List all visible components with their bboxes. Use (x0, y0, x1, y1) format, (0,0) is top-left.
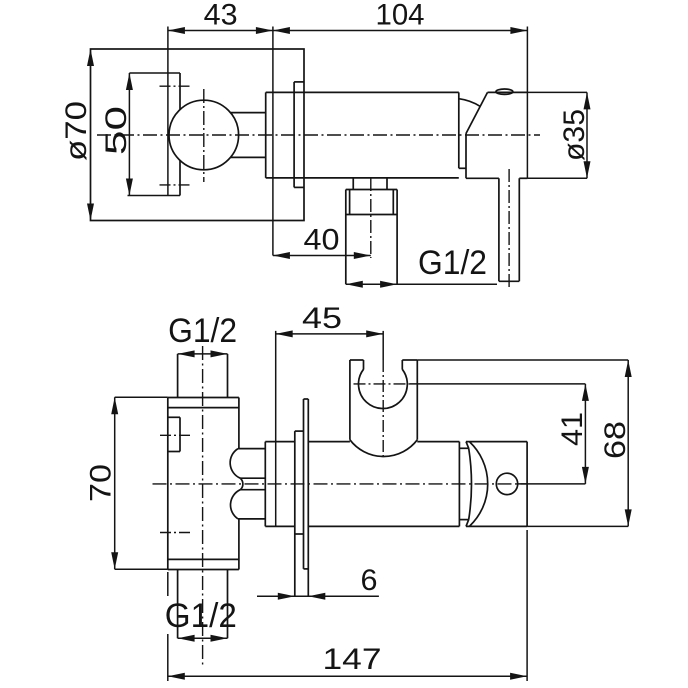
down pipe (top view) (499, 178, 519, 281)
svg-text:41: 41 (556, 412, 589, 446)
dimension text 147 (323, 643, 382, 676)
dimension text 6 (361, 564, 378, 597)
handle lever right edge (179, 73, 181, 196)
shower holder left edge (349, 360, 351, 440)
label G1/2 (top pipe) (168, 312, 237, 350)
68 bottom extension line (527, 525, 628, 527)
head inner arc (469, 448, 472, 519)
shower holder ear tops (350, 359, 417, 361)
41 top extension line (410, 383, 585, 385)
cylinder bottom edge segments (265, 525, 459, 527)
head bottom edge (466, 177, 527, 179)
outlet centerline (370, 178, 372, 258)
vertical centerline (bottom view) (202, 346, 204, 665)
svg-text:50: 50 (100, 106, 133, 155)
dimension 41 (582, 384, 589, 484)
mounting hub behind plate (295, 431, 304, 596)
svg-text:G1/2: G1/2 (168, 312, 237, 350)
dimension 40 line (273, 252, 371, 259)
G1/2 dimension (top pipe) (178, 350, 228, 357)
label G1/2 (top view) (418, 244, 487, 282)
body top cap (168, 398, 239, 408)
147 right extension (526, 530, 528, 681)
svg-text:ø35: ø35 (558, 109, 591, 161)
body bottom cap (168, 559, 239, 569)
cylinder second joint / 45 extension (275, 331, 277, 527)
head outline (bottom view) (466, 442, 527, 527)
68 top extension line (417, 359, 628, 361)
outlet pipe bottom (178, 570, 228, 639)
svg-text:ø70: ø70 (60, 101, 93, 161)
svg-text:68: 68 (599, 421, 632, 459)
head dome bump (496, 89, 513, 94)
handle lever left edge / 43 extension line (167, 27, 169, 196)
outlet nut (346, 190, 397, 285)
vertical body right edge (238, 398, 240, 570)
holder horizontal centerline (354, 383, 411, 385)
svg-text:6: 6 (361, 564, 378, 597)
dimension text 40 (304, 224, 340, 257)
ball vertical centerline (203, 89, 205, 182)
cover plate (bottom view) (304, 399, 309, 596)
lower hole centerline (160, 532, 193, 534)
dimension text 45 (302, 302, 342, 335)
head right edge / 104 extension (526, 27, 528, 179)
dimension o35 line (527, 92, 590, 178)
dimension 68 (625, 360, 632, 526)
body cylinder bottom edge (266, 177, 459, 179)
dimension line o70 with arrows (87, 49, 94, 221)
cylinder left joint (264, 442, 266, 527)
lug bottom edge / 50 bottom extension (128, 195, 181, 197)
dimension 70 line (111, 397, 168, 569)
down pipe centerline (508, 169, 510, 290)
svg-text:43: 43 (204, 0, 238, 32)
outlet neck stubs (353, 178, 387, 190)
svg-text:45: 45 (302, 302, 342, 335)
dimension 147 (168, 673, 527, 680)
dimension text 41 (556, 412, 589, 446)
dimension 50 line (126, 73, 133, 196)
vertical body left edge (167, 398, 169, 570)
dimension text 104 (376, 0, 425, 32)
main horizontal centerline (bottom view) (153, 483, 528, 485)
clip centerline (160, 434, 192, 436)
head cusp lines (459, 442, 468, 527)
dimension text 70 (85, 464, 118, 502)
svg-text:70: 70 (85, 464, 118, 502)
head slanted edge (466, 92, 488, 133)
dimension 45 (276, 330, 384, 337)
inlet pipe top (178, 354, 228, 398)
svg-text:G1/2: G1/2 (418, 244, 487, 282)
set screw circle (496, 473, 517, 494)
lug centerline top (160, 85, 191, 87)
wall box outline (concealed body square) (91, 49, 305, 221)
handle neck (230, 113, 266, 158)
41 bottom extension line (518, 483, 586, 485)
head joint line (458, 92, 460, 168)
lug top edge / 50 top extension (129, 72, 180, 74)
wall reference line (272, 27, 274, 256)
head fillet arc (460, 99, 480, 106)
hose nut lower (231, 478, 266, 519)
body cylinder top edge (266, 91, 459, 93)
cylinder top edge segments (265, 441, 459, 443)
head outer arc (470, 442, 488, 526)
dimension 43 and 104 line (168, 27, 528, 34)
head joint line (bottom view) (458, 442, 460, 527)
lug centerline bottom (160, 184, 191, 186)
dimension text 68 (599, 421, 632, 459)
cover plate edge-on (top view) (294, 82, 304, 187)
dimension text 43 (204, 0, 238, 32)
svg-text:40: 40 (304, 224, 340, 257)
shower holder inner notch (364, 360, 403, 370)
dimension 6 (257, 593, 379, 600)
head under notch (459, 134, 466, 179)
label G1/2 (bottom pipe) (165, 597, 237, 635)
svg-text:104: 104 (376, 0, 425, 32)
holder vertical centerline / 45 extension (382, 331, 384, 360)
svg-text:G1/2: G1/2 (165, 597, 237, 635)
cartridge flange (265, 92, 267, 177)
shower holder bottom arc (350, 440, 417, 457)
head top edge (488, 91, 528, 93)
dimension text 50 (100, 106, 133, 155)
handle ball (169, 100, 239, 170)
G1/2 leader line (top view) (346, 281, 497, 288)
shower holder right edge (416, 360, 418, 440)
147 left extension (167, 572, 169, 681)
main horizontal centerline (top view) (97, 134, 540, 136)
hose nut upper (230, 449, 265, 479)
dimension text o70 (60, 101, 93, 161)
shower holder cup circle (359, 369, 408, 408)
svg-text:147: 147 (323, 643, 382, 676)
side clip (168, 417, 180, 451)
dimension text o35 (558, 109, 591, 161)
G1/2 dimension (bottom pipe) (178, 635, 228, 642)
